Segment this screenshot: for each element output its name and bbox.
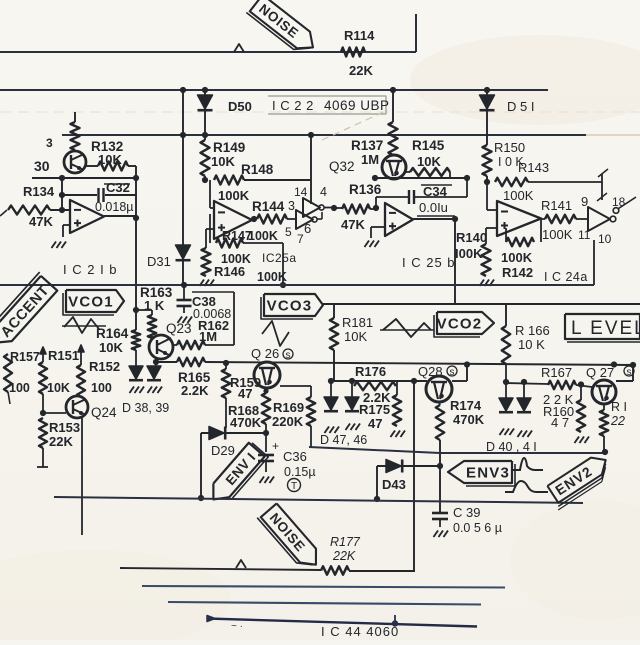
svg-text:10K: 10K: [417, 154, 441, 169]
svg-text:I C 2 2: I C 2 2: [272, 98, 314, 113]
svg-text:R175: R175: [359, 402, 390, 417]
svg-text:R145: R145: [412, 138, 445, 153]
svg-text:R141: R141: [541, 198, 572, 213]
svg-text:470K: 470K: [453, 412, 485, 427]
svg-text:1M: 1M: [361, 152, 379, 167]
svg-text:3: 3: [288, 199, 295, 213]
svg-text:L EVEL: L EVEL: [571, 318, 640, 339]
svg-text:Q 27: Q 27: [586, 365, 614, 380]
svg-text:10K: 10K: [99, 340, 123, 355]
svg-text:10K: 10K: [47, 381, 70, 395]
svg-text:0.15µ: 0.15µ: [284, 465, 316, 479]
svg-text:47K: 47K: [341, 217, 365, 232]
svg-text:s: s: [286, 350, 291, 361]
svg-text:10K: 10K: [211, 154, 235, 169]
svg-text:R146: R146: [214, 264, 245, 279]
svg-text:22K: 22K: [349, 63, 373, 78]
svg-text:D 5 I: D 5 I: [507, 99, 534, 114]
svg-text:R177: R177: [330, 535, 361, 549]
svg-text:R137: R137: [351, 138, 383, 153]
svg-text:7: 7: [297, 232, 304, 246]
svg-text:R152: R152: [89, 359, 120, 374]
svg-text:22K: 22K: [49, 434, 73, 449]
svg-text:s: s: [450, 367, 455, 378]
svg-text:R167: R167: [541, 365, 572, 380]
svg-text:IC25a: IC25a: [262, 251, 297, 265]
svg-text:220K: 220K: [272, 414, 304, 429]
svg-text:C32: C32: [106, 180, 130, 195]
svg-text:18: 18: [612, 195, 626, 209]
svg-text:100K: 100K: [501, 250, 533, 265]
svg-text:D 47, 46: D 47, 46: [320, 433, 367, 447]
svg-text:100: 100: [91, 381, 112, 395]
svg-text:3: 3: [46, 136, 53, 150]
svg-text:47: 47: [368, 416, 382, 431]
svg-text:R143: R143: [518, 160, 549, 175]
svg-text:R150: R150: [494, 140, 525, 155]
svg-text:VCO3: VCO3: [267, 297, 313, 314]
svg-text:30: 30: [34, 158, 50, 174]
svg-text:Q32: Q32: [329, 159, 355, 174]
svg-text:R140: R140: [456, 230, 487, 245]
svg-text:100K: 100K: [248, 229, 278, 243]
svg-text:4: 4: [320, 185, 327, 199]
svg-text:C 39: C 39: [453, 505, 480, 520]
svg-text:D43: D43: [382, 477, 406, 492]
svg-text:+: +: [272, 439, 279, 453]
svg-text:R176: R176: [355, 364, 386, 379]
svg-text:470K: 470K: [230, 415, 262, 430]
svg-text:100K: 100K: [218, 188, 250, 203]
svg-text:R I: R I: [611, 400, 627, 414]
svg-text:~ ·: ~ ·: [231, 621, 243, 632]
svg-text:4 7: 4 7: [551, 415, 569, 430]
svg-text:22K: 22K: [332, 549, 356, 563]
svg-text:4069 UBP: 4069 UBP: [324, 98, 390, 113]
svg-text:I C 44 4060: I C 44 4060: [321, 624, 399, 639]
svg-text:R142: R142: [502, 265, 533, 280]
svg-text:R136: R136: [349, 182, 382, 197]
svg-text:2.2K: 2.2K: [181, 383, 209, 398]
svg-text:D29: D29: [211, 443, 235, 458]
svg-text:0.0 5 6 µ: 0.0 5 6 µ: [453, 521, 502, 535]
svg-text:R181: R181: [342, 315, 373, 330]
svg-text:47: 47: [238, 386, 252, 401]
svg-text:R148: R148: [241, 162, 274, 177]
svg-text:s: s: [627, 367, 632, 378]
svg-text:ENV3: ENV3: [466, 464, 510, 481]
svg-text:R144: R144: [252, 199, 285, 214]
svg-text:D31: D31: [147, 254, 171, 269]
svg-text:5: 5: [285, 225, 292, 239]
svg-text:R153: R153: [49, 420, 80, 435]
svg-text:R164: R164: [96, 326, 129, 341]
svg-text:R114: R114: [344, 28, 375, 43]
svg-text:VCO2: VCO2: [437, 315, 483, 332]
svg-text:I C 25 b: I C 25 b: [402, 255, 456, 270]
svg-text:Q23: Q23: [166, 321, 192, 336]
svg-text:C36: C36: [283, 449, 307, 464]
svg-text:10: 10: [598, 232, 612, 246]
svg-text:R169: R169: [273, 400, 304, 415]
svg-text:100K: 100K: [542, 227, 573, 242]
svg-text:47K: 47K: [29, 214, 53, 229]
svg-text:R 166: R 166: [515, 323, 550, 338]
svg-text:I C 2 I b: I C 2 I b: [63, 262, 118, 277]
svg-text:100K: 100K: [503, 188, 534, 203]
svg-text:10K: 10K: [344, 329, 367, 344]
svg-text:D 38, 39: D 38, 39: [122, 401, 169, 415]
svg-text:VCO1: VCO1: [68, 293, 114, 310]
svg-text:R134: R134: [23, 184, 55, 199]
svg-text:Q 26: Q 26: [251, 346, 279, 361]
svg-text:R149: R149: [213, 140, 245, 155]
svg-text:R157: R157: [10, 350, 40, 364]
svg-text:100: 100: [9, 381, 30, 395]
svg-text:0.018µ: 0.018µ: [95, 200, 133, 214]
svg-text:R151: R151: [48, 348, 79, 363]
svg-text:T: T: [291, 481, 297, 492]
svg-text:14: 14: [294, 185, 308, 199]
svg-text:Q24: Q24: [91, 405, 117, 420]
svg-text:I00K: I00K: [455, 246, 483, 261]
svg-text:22: 22: [610, 414, 625, 428]
svg-text:R174: R174: [450, 398, 482, 413]
svg-text:D50: D50: [228, 99, 252, 114]
svg-text:D 40 , 4 I: D 40 , 4 I: [486, 440, 537, 454]
svg-text:10 K: 10 K: [518, 337, 545, 352]
svg-text:I C 24a: I C 24a: [544, 270, 588, 284]
svg-text:0.0Iu: 0.0Iu: [419, 200, 448, 215]
svg-text:6: 6: [304, 221, 311, 236]
